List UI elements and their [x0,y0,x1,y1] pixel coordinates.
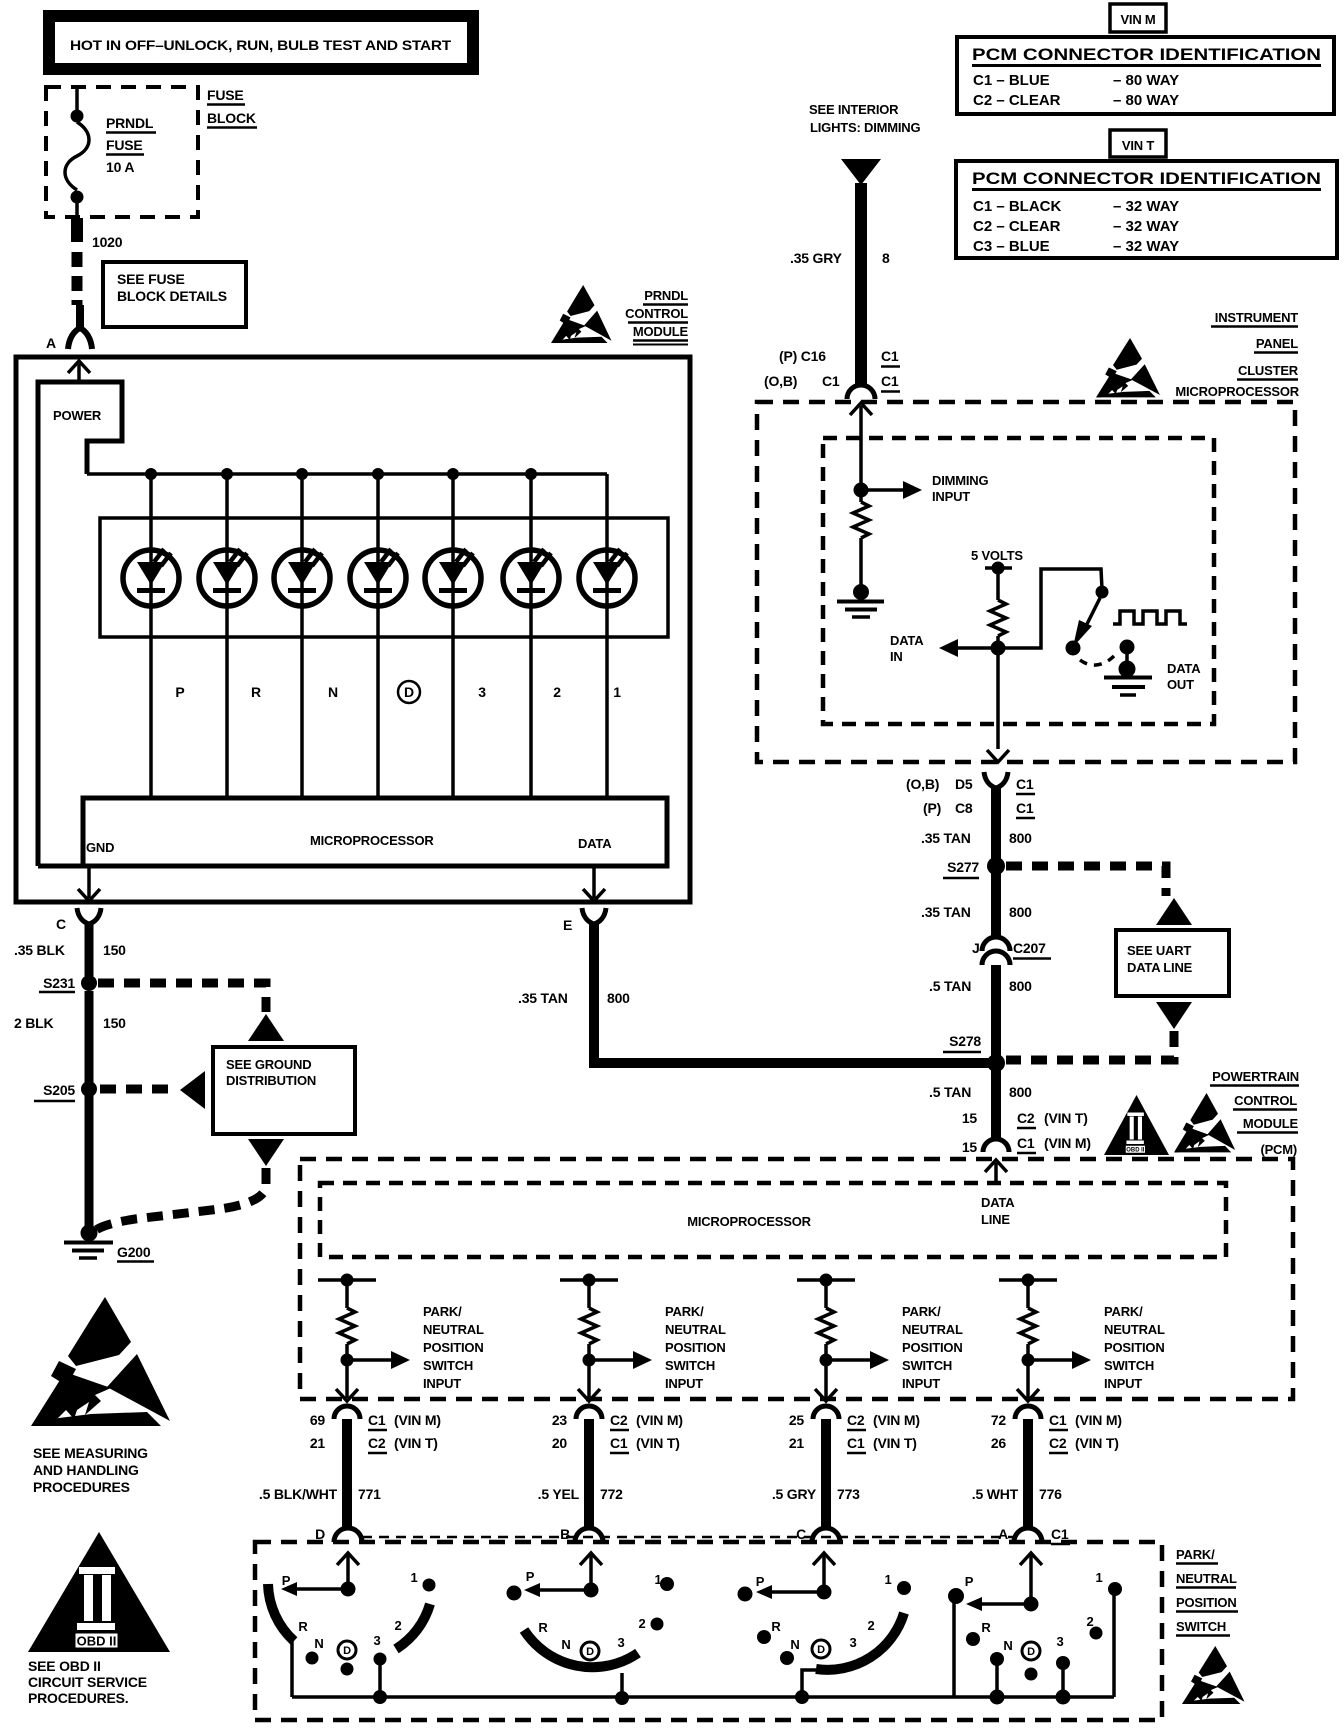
svg-text:PROCEDURES: PROCEDURES [33,1479,130,1495]
svg-text:2 BLK: 2 BLK [14,1015,54,1031]
svg-text:MICROPROCESSOR: MICROPROCESSOR [310,833,434,848]
svg-text:C: C [796,1526,806,1542]
connector C [56,908,101,976]
svg-text:SWITCH: SWITCH [1104,1358,1154,1373]
resistor (PNP switch input pull-up at 347) [318,1274,376,1367]
svg-text:1020: 1020 [92,234,123,250]
svg-text:R: R [771,1619,781,1634]
svg-text:DISTRIBUTION: DISTRIBUTION [226,1073,316,1088]
see fuse block details note [103,262,246,327]
svg-text:R: R [538,1620,548,1635]
svg-text:N: N [561,1637,570,1652]
park/neutral position switch input arrow [589,1304,726,1391]
VIN M tag box [1110,4,1166,32]
svg-text:D: D [586,1646,594,1658]
svg-text:C1: C1 [368,1412,386,1428]
svg-text:776: 776 [1039,1486,1062,1502]
svg-text:(VIN T): (VIN T) [873,1435,917,1451]
svg-text:– 32 WAY: – 32 WAY [1113,198,1179,215]
svg-text:C1 – BLUE: C1 – BLUE [973,72,1050,89]
svg-text:C1 – BLACK: C1 – BLACK [973,198,1062,215]
svg-text:69: 69 [310,1412,326,1428]
fuse block label [207,87,257,128]
svg-text:D: D [1027,1646,1035,1658]
svg-text:150: 150 [103,1015,126,1031]
ESD symbol (cluster) [1096,338,1160,397]
svg-text:3: 3 [849,1635,856,1650]
svg-text:P: P [526,1569,535,1584]
switch B (wiper and contacts) [507,1553,675,1705]
svg-text:C1: C1 [881,348,899,364]
wire S205 to G200 [85,1094,94,1228]
LED N [274,549,330,606]
splice S205 [34,1081,97,1101]
PCM microprocessor dashed box [320,1183,1226,1257]
5 volts source [971,548,1023,575]
svg-text:FUSE: FUSE [207,87,244,103]
data in junction [991,641,1006,656]
svg-text:PRNDL: PRNDL [106,115,154,131]
svg-text:POSITION: POSITION [665,1340,726,1355]
svg-text:C1: C1 [1017,1135,1035,1151]
svg-text:.5 WHT: .5 WHT [972,1486,1019,1502]
connector C [796,1526,840,1542]
svg-text:DATA: DATA [890,633,924,648]
svg-text:(O,B): (O,B) [906,776,939,792]
svg-text:C2: C2 [847,1412,865,1428]
gnd output wire [78,866,100,901]
svg-text:D: D [315,1526,325,1542]
svg-text:800: 800 [607,990,630,1006]
svg-text:MODULE: MODULE [633,324,689,339]
svg-text:(P): (P) [923,800,941,816]
wire .5 YEL 772 [538,1419,624,1527]
svg-text:(O,B): (O,B) [764,373,797,389]
svg-text:VIN T: VIN T [1122,138,1154,153]
svg-text:.35 TAN: .35 TAN [921,830,971,846]
wire 1020 stub [71,218,123,250]
svg-text:.35 GRY: .35 GRY [790,250,843,266]
svg-text:20: 20 [552,1435,568,1451]
off-page triangle from interior lights [841,159,881,185]
svg-text:.5 BLK/WHT: .5 BLK/WHT [259,1486,338,1502]
PRNDL control module box [16,357,690,902]
PCM pin labels 15/15 [962,1110,1091,1155]
off-page triangle (from ground distribution, left) [180,1071,205,1109]
svg-text:1: 1 [1095,1570,1102,1585]
svg-text:R: R [251,684,261,700]
svg-text:(VIN T): (VIN T) [1044,1110,1088,1126]
svg-text:3: 3 [617,1635,624,1650]
svg-text:C3 – BLUE: C3 – BLUE [973,238,1050,255]
ESD symbol (measuring and handling) [31,1297,170,1426]
arrow into cluster [850,403,872,487]
fuse PRNDL FUSE 10 A [65,110,156,219]
svg-text:P: P [756,1574,765,1589]
svg-text:72: 72 [991,1412,1007,1428]
svg-text:MICROPROCESSOR: MICROPROCESSOR [1175,384,1299,399]
svg-text:PARK/: PARK/ [665,1304,704,1319]
see OBD II note [28,1658,147,1706]
park/neutral position switch dashed box [255,1542,1162,1720]
svg-text:GND: GND [86,840,114,855]
svg-text:C2: C2 [368,1435,386,1451]
svg-text:C2: C2 [1017,1110,1035,1126]
PRNDL control module label [625,288,688,345]
svg-text:(VIN T): (VIN T) [394,1435,438,1451]
svg-text:.35 BLK: .35 BLK [14,942,65,958]
svg-text:LINE: LINE [981,1212,1010,1227]
svg-text:A: A [46,335,56,351]
PCM connector pins 23/20 [552,1406,683,1453]
svg-text:P: P [175,684,184,700]
svg-text:VIN M: VIN M [1120,12,1155,27]
svg-text:21: 21 [789,1435,805,1451]
hot feed label box [49,16,473,69]
instrument panel cluster microprocessor label [1175,310,1299,399]
svg-text:3: 3 [373,1633,380,1648]
svg-text:POSITION: POSITION [423,1340,484,1355]
svg-text:D: D [817,1644,825,1656]
svg-text:SWITCH: SWITCH [1176,1619,1226,1634]
resistor (PNP switch input pull-up at 826) [797,1274,855,1367]
svg-text:PARK/: PARK/ [423,1304,462,1319]
connector C16/C1 at cluster top [764,348,900,399]
label D (circled) [398,681,420,703]
wire out of PCM [336,1360,358,1401]
ESD symbol (PCM) [1174,1093,1235,1152]
svg-text:(PCM): (PCM) [1260,1142,1297,1157]
off-page triangle below ground distribution box [248,1139,284,1166]
LED R [199,549,255,606]
LED 1 [579,549,635,606]
svg-text:S278: S278 [949,1033,981,1049]
svg-text:S205: S205 [43,1082,75,1098]
data out contact and ground [1104,640,1201,696]
resistor (dimming pull-up) [853,497,869,588]
wire .5 BLK/WHT 771 [259,1419,381,1527]
svg-text:G200: G200 [117,1244,151,1260]
svg-text:NEUTRAL: NEUTRAL [423,1322,484,1337]
svg-text:SWITCH: SWITCH [665,1358,715,1373]
svg-text:(VIN M): (VIN M) [873,1412,920,1428]
see UART data line note [1116,930,1229,996]
svg-text:S231: S231 [43,975,75,991]
svg-text:PRNDL: PRNDL [644,288,688,303]
wire LED column P [149,474,153,798]
svg-text:P: P [965,1574,974,1589]
svg-text:R: R [981,1620,991,1635]
svg-text:C1: C1 [822,373,840,389]
svg-text:INPUT: INPUT [1104,1376,1142,1391]
svg-text:800: 800 [1009,978,1032,994]
svg-text:771: 771 [358,1486,381,1502]
svg-text:C2: C2 [610,1412,628,1428]
off-page triangle (UART, upper) [1156,898,1192,925]
wire .5 TAN 800 (below S278) [929,1068,1032,1140]
wire .35 TAN 800 (upper) [921,788,1032,862]
data in arrow [890,633,998,664]
svg-text:PROCEDURES.: PROCEDURES. [28,1690,128,1706]
svg-text:2: 2 [638,1616,645,1631]
svg-text:HOT IN OFF–UNLOCK, RUN, BULB T: HOT IN OFF–UNLOCK, RUN, BULB TEST AND ST… [70,37,452,53]
svg-text:15: 15 [962,1139,978,1155]
svg-text:D5: D5 [955,776,973,792]
wire .5 TAN 800 (above S278) [929,965,1032,1058]
svg-text:S277: S277 [947,859,979,875]
PCM connector identification box (VIN M) [957,37,1334,114]
park/neutral position switch input arrow [826,1304,963,1391]
dimming input arrow [861,473,988,504]
svg-text:– 32 WAY: – 32 WAY [1113,238,1179,255]
svg-text:– 80 WAY: – 80 WAY [1113,92,1179,109]
svg-text:INPUT: INPUT [902,1376,940,1391]
svg-text:1: 1 [613,684,621,700]
splice S277 [943,857,1005,878]
dashed link S231 to ground distribution [98,983,266,1012]
svg-text:N: N [790,1637,799,1652]
LED 2 [503,549,559,606]
svg-text:C8: C8 [955,800,973,816]
in-line connector C207 pin J [972,937,1051,965]
svg-text:NEUTRAL: NEUTRAL [902,1322,963,1337]
svg-text:NEUTRAL: NEUTRAL [665,1322,726,1337]
svg-text:800: 800 [1009,904,1032,920]
wire out of PCM [578,1360,600,1401]
svg-text:SEE INTERIOR: SEE INTERIOR [809,102,899,117]
svg-text:.35 TAN: .35 TAN [518,990,568,1006]
data switch [1066,586,1115,666]
svg-text:INSTRUMENT: INSTRUMENT [1215,310,1298,325]
junction dot [372,468,384,480]
svg-text:OUT: OUT [1167,677,1194,692]
wire label .35 BLK 150 [14,942,126,958]
svg-text:NEUTRAL: NEUTRAL [1104,1322,1165,1337]
wire LED column D [376,474,380,798]
svg-text:DATA LINE: DATA LINE [1127,960,1193,975]
svg-text:C: C [56,916,66,932]
svg-text:CONTROL: CONTROL [625,306,688,321]
svg-text:2: 2 [1086,1614,1093,1629]
data output wire [583,866,605,901]
svg-text:150: 150 [103,942,126,958]
svg-text:NEUTRAL: NEUTRAL [1176,1571,1237,1586]
svg-text:C207: C207 [1013,940,1046,956]
dashed link S277 to UART note [1006,866,1166,896]
svg-text:(VIN M): (VIN M) [1075,1412,1122,1428]
svg-text:(VIN T): (VIN T) [1075,1435,1119,1451]
svg-text:C2 – CLEAR: C2 – CLEAR [973,218,1061,235]
svg-text:SEE FUSE: SEE FUSE [117,271,185,287]
LED D [350,549,406,606]
PCM connector pins 69/21 [310,1406,441,1453]
LED P [123,549,179,606]
splice S231 [39,975,97,992]
ground (dimming) [837,584,884,617]
svg-text:.5 GRY: .5 GRY [772,1486,817,1502]
svg-text:CIRCUIT SERVICE: CIRCUIT SERVICE [28,1674,147,1690]
see measuring and handling note [33,1445,148,1495]
see ground distribution note [213,1047,355,1134]
svg-text:POWER: POWER [53,408,102,423]
svg-text:(VIN M): (VIN M) [636,1412,683,1428]
OBD II symbol (PCM) [1104,1095,1169,1155]
junction dot [145,468,157,480]
dashed link to G200 [96,1168,266,1230]
svg-text:.35 TAN: .35 TAN [921,904,971,920]
power box [38,382,122,866]
svg-text:POSITION: POSITION [902,1340,963,1355]
LED supply bus [87,472,607,476]
resistor (PNP switch input pull-up at 589) [560,1274,618,1367]
svg-text:(VIN T): (VIN T) [636,1435,680,1451]
connector A [46,305,92,351]
svg-text:AND HANDLING: AND HANDLING [33,1462,139,1478]
svg-text:SEE GROUND: SEE GROUND [226,1057,311,1072]
PCM connector identification box (VIN T) [956,161,1337,258]
svg-text:.5 TAN: .5 TAN [929,1084,971,1100]
svg-text:CLUSTER: CLUSTER [1238,363,1299,378]
svg-text:C1: C1 [610,1435,628,1451]
svg-text:C1: C1 [881,373,899,389]
connector D [315,1526,362,1542]
svg-text:MODULE: MODULE [1243,1116,1299,1131]
svg-text:PCM CONNECTOR IDENTIFICATION: PCM CONNECTOR IDENTIFICATION [972,170,1321,188]
svg-text:15: 15 [962,1110,978,1126]
svg-text:2: 2 [867,1618,874,1633]
wire .5 GRY 773 [772,1419,860,1527]
svg-text:SEE MEASURING: SEE MEASURING [33,1445,148,1461]
wire out of PCM [1017,1360,1039,1401]
splice S278 [943,1033,1005,1072]
arrow into module from connector A [68,361,90,382]
junction dot [296,468,308,480]
wire .35 TAN 800 (middle) [921,871,1032,936]
svg-text:DATA: DATA [578,836,612,851]
switch D (wiper and contacts) [268,1553,436,1704]
wire label 2 BLK 150 [14,1015,126,1031]
switch C (wiper and contacts) [738,1553,912,1704]
svg-text:8: 8 [882,250,890,266]
svg-text:MICROPROCESSOR: MICROPROCESSOR [687,1214,811,1229]
wire .35 GRY 8 [790,183,890,384]
wire out of PCM [815,1360,837,1401]
svg-text:25: 25 [789,1412,805,1428]
svg-text:C2: C2 [1049,1435,1067,1451]
svg-text:E: E [563,917,572,933]
svg-text:P: P [282,1573,291,1588]
svg-text:773: 773 [837,1486,860,1502]
svg-text:10 A: 10 A [106,159,134,175]
svg-text:2: 2 [553,684,561,700]
arrow into PCM (data line) [981,1160,1015,1227]
svg-text:.5 YEL: .5 YEL [538,1486,580,1502]
svg-text:800: 800 [1009,830,1032,846]
wire .5 WHT 776 [972,1419,1062,1527]
off-page triangle (to ground distribution) [248,1014,284,1041]
square wave symbol [1113,611,1187,624]
svg-text:5 VOLTS: 5 VOLTS [971,548,1023,563]
park/neutral position switch label [1176,1547,1238,1636]
dashed link S205 to ground distribution [100,1085,176,1094]
off-page triangle (UART, lower) [1156,1002,1192,1029]
OBD II symbol (large) [28,1532,170,1652]
data line exit wire [987,655,1009,762]
svg-text:26: 26 [991,1435,1007,1451]
svg-text:772: 772 [600,1486,623,1502]
svg-text:C1: C1 [1016,800,1034,816]
svg-text:PARK/: PARK/ [1176,1547,1215,1562]
svg-text:1: 1 [410,1570,417,1585]
dimming input junction [854,483,869,498]
resistor (data pull-up) [990,568,1006,644]
junction dot [221,468,233,480]
dashed wire to fuse block details [72,252,83,305]
junction dot [525,468,537,480]
VIN T tag box [1110,130,1166,157]
svg-text:PARK/: PARK/ [902,1304,941,1319]
ESD symbol (PRNDL module) [551,285,611,343]
svg-text:2: 2 [394,1618,401,1633]
svg-text:SWITCH: SWITCH [902,1358,952,1373]
svg-text:DATA: DATA [1167,661,1201,676]
ESD symbol (PNP switch) [1182,1646,1245,1704]
connector B [560,1526,603,1542]
park/neutral position switch input arrow [347,1304,484,1391]
svg-text:FUSE: FUSE [106,137,143,153]
svg-text:DATA: DATA [981,1195,1015,1210]
svg-text:23: 23 [552,1412,568,1428]
instrument panel cluster inner dashed box [823,438,1214,724]
svg-text:LIGHTS: DIMMING: LIGHTS: DIMMING [810,120,920,135]
wire into fuse [75,87,79,112]
switch feed wire [998,569,1102,648]
svg-text:PCM CONNECTOR IDENTIFICATION: PCM CONNECTOR IDENTIFICATION [972,46,1321,64]
PCM connector pins 72/26 [991,1406,1122,1453]
connector E [563,908,606,933]
svg-text:PANEL: PANEL [1256,336,1298,351]
ground G200 [64,1225,154,1262]
connector into PCM [983,1139,1009,1152]
svg-text:– 80 WAY: – 80 WAY [1113,72,1179,89]
junction dot [447,468,459,480]
svg-text:C1: C1 [847,1435,865,1451]
svg-text:3: 3 [1056,1634,1063,1649]
wire LED column 2 [529,474,533,798]
wire LED column N [300,474,304,798]
svg-text:N: N [314,1636,323,1651]
LED 3 [425,549,481,606]
svg-text:POSITION: POSITION [1176,1595,1237,1610]
see interior lights: dimming note [809,102,920,135]
svg-text:INPUT: INPUT [423,1376,461,1391]
svg-text:A: A [998,1526,1008,1542]
park/neutral position switch input arrow [1028,1304,1165,1391]
fuse block dashed box [46,87,198,217]
powertrain control module outer dashed box [300,1159,1293,1399]
resistor (PNP switch input pull-up at 1028) [999,1274,1057,1367]
svg-text:BLOCK: BLOCK [207,110,256,126]
svg-text:C1: C1 [1049,1412,1067,1428]
svg-text:BLOCK DETAILS: BLOCK DETAILS [117,288,227,304]
svg-text:B: B [560,1526,570,1542]
microprocessor box (PRNDL) [38,798,667,866]
svg-text:800: 800 [1009,1084,1032,1100]
instrument panel cluster outer dashed box [757,402,1295,762]
wire C to S205 [85,991,94,1085]
svg-text:(VIN M): (VIN M) [394,1412,441,1428]
svg-text:.5 TAN: .5 TAN [929,978,971,994]
